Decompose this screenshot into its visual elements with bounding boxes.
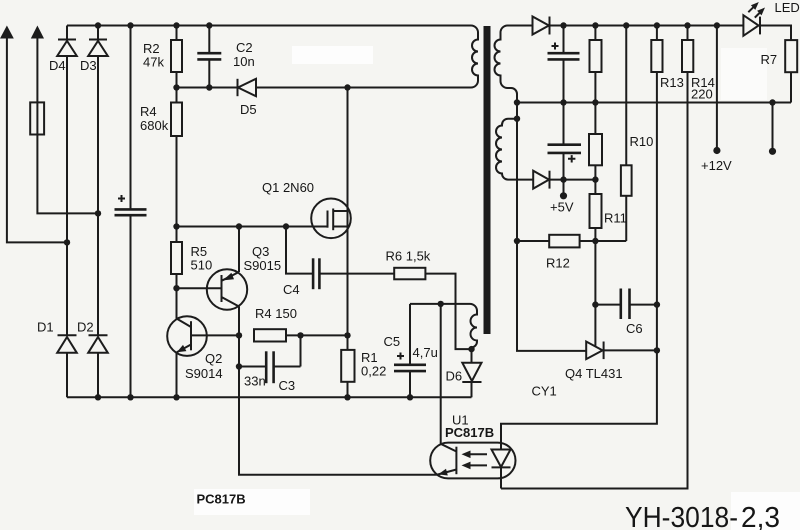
capacitor C4 — [286, 227, 394, 290]
svg-text:CY1: CY1 — [532, 384, 557, 399]
wire D4 to D1 — [66, 56, 68, 335]
svg-text:Q4 TL431: Q4 TL431 — [565, 366, 623, 381]
svg-text:C4: C4 — [283, 282, 300, 297]
white patch right — [721, 48, 767, 100]
wire D1 to rail — [66, 353, 68, 398]
svg-text:0,22: 0,22 — [361, 364, 386, 379]
wire from arrow1 to bridge — [7, 37, 67, 242]
snubber wire — [177, 87, 472, 89]
Q2 emitter wire — [176, 352, 178, 397]
svg-text:R10: R10 — [630, 134, 654, 149]
svg-text:D1: D1 — [37, 320, 54, 335]
wire arrow2 to fuse — [36, 37, 38, 102]
resistor R10 — [621, 26, 632, 242]
svg-text:S9015: S9015 — [244, 258, 282, 273]
mains arrow 1 — [0, 26, 14, 39]
resistor R5 — [171, 227, 182, 289]
wire winding to opto collector — [440, 304, 442, 444]
svg-text:S9014: S9014 — [185, 366, 223, 381]
svg-text:R12: R12 — [546, 256, 570, 271]
svg-text:2,3: 2,3 — [741, 502, 780, 530]
svg-text:680k: 680k — [140, 118, 169, 133]
svg-text:PC817B: PC817B — [197, 492, 246, 507]
resistor R1 — [341, 335, 354, 397]
wire fuse to D3 column — [37, 135, 98, 214]
diode D2 — [88, 335, 108, 353]
svg-text:Q3: Q3 — [252, 244, 269, 259]
svg-text:C3: C3 — [279, 378, 296, 393]
capacitor 12V filter — [548, 26, 580, 103]
bottom return rail — [67, 396, 472, 398]
resistor R6 — [394, 268, 471, 349]
capacitor C2 — [197, 26, 221, 88]
svg-text:D2: D2 — [77, 320, 94, 335]
transistor Q2 S9014 — [167, 316, 239, 356]
svg-text:Q2: Q2 — [205, 351, 222, 366]
bulk capacitor — [115, 26, 147, 398]
opto LED — [492, 443, 511, 489]
LED indicator — [743, 15, 760, 36]
+5V terminal — [550, 180, 574, 215]
diode D3 — [88, 26, 108, 57]
svg-text:510: 510 — [191, 258, 213, 273]
transformer secondary 5V winding — [496, 119, 533, 180]
svg-text:10n: 10n — [233, 54, 255, 69]
top AC rail — [67, 25, 471, 27]
capacitor C6 — [595, 289, 657, 320]
resistor R8 — [590, 26, 602, 103]
white patch behind title suffix — [731, 492, 800, 530]
svg-text:R13: R13 — [660, 75, 684, 90]
resistor R13 — [651, 26, 662, 305]
capacitor 5V filter — [548, 103, 582, 180]
secondary top rail — [550, 25, 744, 27]
svg-text:D4: D4 — [49, 58, 66, 73]
feedback winding — [410, 304, 477, 349]
white patch top center — [292, 46, 373, 64]
Q3 collector wire — [238, 307, 240, 336]
optocoupler U1 PC817B — [430, 443, 515, 479]
resistor R9 — [589, 103, 602, 180]
Q1 drain-source line — [347, 88, 349, 336]
svg-text:+5V: +5V — [550, 200, 574, 215]
Q2 collector wire — [176, 288, 178, 318]
gate drive line — [177, 226, 328, 228]
resistor R7 — [785, 40, 797, 102]
svg-text:4,7u: 4,7u — [413, 345, 438, 360]
wire D2 to rail — [97, 353, 99, 398]
opto phototransistor — [437, 444, 456, 476]
svg-text:LED: LED — [775, 0, 800, 15]
svg-text:+12V: +12V — [701, 158, 732, 173]
svg-text:R11: R11 — [604, 211, 627, 226]
resistor R11 — [590, 180, 602, 241]
transformer secondary top — [495, 26, 533, 103]
TL431 reference wire — [594, 241, 596, 347]
mosfet Q1 2N60 — [311, 199, 351, 239]
svg-text:C5: C5 — [384, 334, 401, 349]
diode D1 — [57, 335, 77, 353]
resistor R12 — [517, 235, 626, 248]
svg-text:R4: R4 — [140, 104, 157, 119]
svg-text:R6 1,5k: R6 1,5k — [386, 249, 431, 264]
svg-text:220: 220 — [691, 87, 713, 102]
svg-text:PC817B: PC817B — [445, 425, 494, 440]
white patch behind PC817B label — [194, 489, 310, 515]
svg-text:R7: R7 — [761, 52, 778, 67]
wire D3 to D2 — [97, 56, 99, 335]
svg-text:47k: 47k — [143, 55, 164, 70]
svg-text:D6: D6 — [446, 369, 463, 384]
diode D7 secondary rectifier — [533, 17, 550, 35]
svg-text:C6: C6 — [626, 321, 643, 336]
wire rail to 5V winding — [516, 103, 518, 242]
opto coupling arrows — [462, 451, 488, 470]
svg-text:R4 150: R4 150 — [255, 306, 297, 321]
capacitor C5 — [394, 304, 426, 397]
diode D4 — [57, 26, 77, 57]
transformer primary — [471, 26, 478, 88]
svg-text:YH-3018-: YH-3018- — [625, 502, 738, 530]
resistor R2 — [171, 26, 182, 88]
transistor Q3 S9015 — [177, 269, 248, 309]
shunt regulator Q4 TL431 — [586, 342, 657, 360]
resistor R4 680k — [171, 88, 182, 227]
wire LED to R7 — [760, 26, 791, 41]
svg-text:Q1 2N60: Q1 2N60 — [262, 180, 314, 195]
mains arrow 2 — [31, 26, 44, 39]
diode D5 — [238, 79, 257, 96]
svg-text:D5: D5 — [240, 102, 257, 117]
secondary return rail — [517, 102, 791, 104]
resistor R14 — [501, 26, 693, 489]
wire to TL431 anode — [517, 241, 586, 351]
LED arrows — [748, 2, 765, 18]
svg-text:D3: D3 — [80, 58, 97, 73]
+12V terminal — [701, 26, 732, 174]
wire R13 to opto LED anode — [501, 305, 657, 444]
transformer core — [484, 26, 491, 334]
diode D6 — [462, 349, 481, 397]
capacitor C3 — [239, 335, 301, 383]
diode D8 5V rectifier — [533, 171, 595, 189]
wire Q2 base node to opto emitter — [239, 335, 438, 474]
Q3 emitter wire — [238, 227, 240, 273]
svg-text:C2: C2 — [236, 40, 253, 55]
resistor R4 150 — [254, 329, 348, 341]
output terminal — [769, 103, 776, 155]
svg-text:33n: 33n — [244, 374, 266, 389]
fuse F1 — [30, 102, 44, 134]
